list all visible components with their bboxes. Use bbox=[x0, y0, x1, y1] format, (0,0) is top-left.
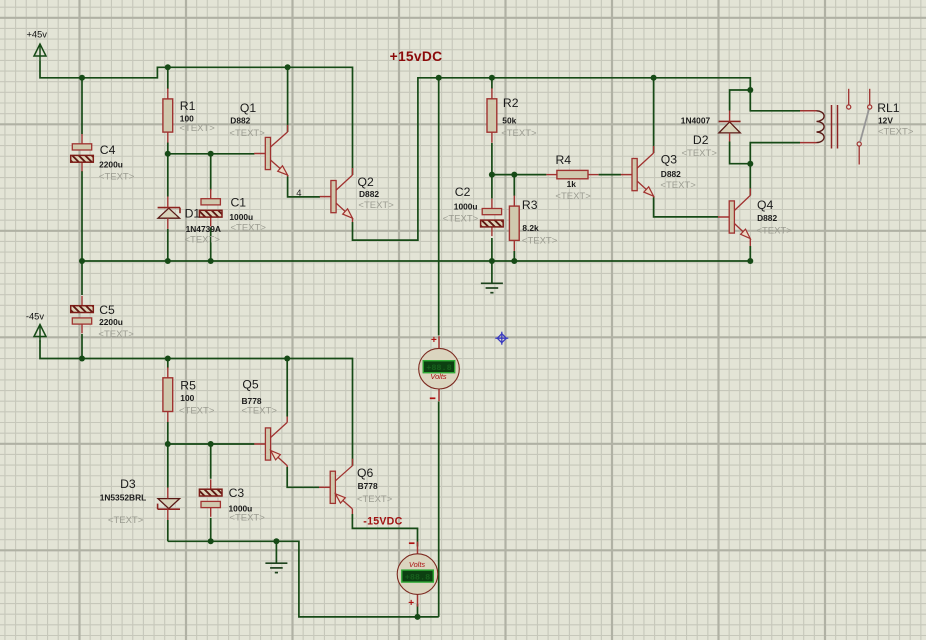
svg-text:<TEXT>: <TEXT> bbox=[185, 235, 221, 246]
svg-text:+88.8: +88.8 bbox=[405, 573, 431, 583]
svg-text:<TEXT>: <TEXT> bbox=[443, 213, 479, 224]
svg-text:C4: C4 bbox=[100, 143, 116, 157]
svg-text:1000u: 1000u bbox=[229, 212, 253, 222]
svg-text:R3: R3 bbox=[522, 198, 538, 212]
svg-text:B778: B778 bbox=[358, 481, 378, 491]
svg-text:C5: C5 bbox=[99, 303, 115, 317]
svg-text:<TEXT>: <TEXT> bbox=[98, 329, 134, 340]
svg-text:1000u: 1000u bbox=[454, 201, 478, 211]
svg-text:D2: D2 bbox=[693, 133, 709, 147]
svg-text:<TEXT>: <TEXT> bbox=[229, 513, 265, 524]
svg-text:<TEXT>: <TEXT> bbox=[108, 515, 144, 526]
svg-text:<TEXT>: <TEXT> bbox=[229, 128, 265, 139]
svg-text:+45v: +45v bbox=[27, 30, 48, 40]
svg-text:<TEXT>: <TEXT> bbox=[522, 236, 558, 247]
svg-text:<TEXT>: <TEXT> bbox=[179, 123, 215, 134]
svg-text:+: + bbox=[431, 335, 437, 346]
svg-text:<TEXT>: <TEXT> bbox=[555, 191, 591, 202]
svg-text:<TEXT>: <TEXT> bbox=[231, 223, 267, 234]
svg-text:<TEXT>: <TEXT> bbox=[99, 171, 135, 182]
svg-text:<TEXT>: <TEXT> bbox=[357, 494, 393, 505]
svg-text:Q5: Q5 bbox=[242, 378, 258, 392]
svg-text:<TEXT>: <TEXT> bbox=[660, 180, 696, 191]
svg-text:Volts: Volts bbox=[409, 560, 425, 569]
svg-text:50k: 50k bbox=[502, 116, 516, 126]
svg-text:Q1: Q1 bbox=[240, 101, 256, 115]
svg-text:Q3: Q3 bbox=[661, 153, 677, 167]
svg-text:+: + bbox=[408, 598, 414, 609]
svg-text:<TEXT>: <TEXT> bbox=[878, 126, 914, 137]
svg-text:Q4: Q4 bbox=[757, 198, 773, 212]
svg-text:-45v: -45v bbox=[26, 311, 44, 321]
svg-text:RL1: RL1 bbox=[877, 101, 900, 115]
svg-text:D882: D882 bbox=[359, 189, 379, 199]
svg-text:-15VDC: -15VDC bbox=[363, 515, 402, 527]
svg-text:D882: D882 bbox=[230, 115, 250, 125]
svg-text:Q2: Q2 bbox=[358, 175, 374, 189]
svg-text:D3: D3 bbox=[120, 477, 136, 491]
svg-text:C1: C1 bbox=[231, 195, 247, 209]
svg-text:<TEXT>: <TEXT> bbox=[358, 200, 394, 211]
svg-text:<TEXT>: <TEXT> bbox=[242, 405, 278, 416]
svg-text:100: 100 bbox=[180, 114, 194, 124]
svg-text:4: 4 bbox=[296, 188, 301, 199]
svg-text:+15vDC: +15vDC bbox=[390, 49, 443, 64]
svg-text:R5: R5 bbox=[180, 379, 196, 393]
svg-text:R2: R2 bbox=[503, 96, 519, 110]
svg-text:<TEXT>: <TEXT> bbox=[682, 148, 718, 159]
svg-text:D1: D1 bbox=[185, 206, 201, 220]
svg-text:R4: R4 bbox=[556, 153, 572, 167]
svg-text:2200u: 2200u bbox=[99, 159, 123, 169]
svg-text:100: 100 bbox=[180, 393, 194, 403]
svg-text:1k: 1k bbox=[567, 179, 577, 189]
svg-text:Q6: Q6 bbox=[357, 466, 373, 480]
svg-text:8.2k: 8.2k bbox=[522, 223, 539, 233]
svg-text:2200u: 2200u bbox=[99, 317, 123, 327]
svg-text:<TEXT>: <TEXT> bbox=[756, 225, 792, 236]
svg-text:12V: 12V bbox=[878, 116, 893, 126]
svg-text:<TEXT>: <TEXT> bbox=[501, 128, 537, 139]
svg-text:<TEXT>: <TEXT> bbox=[179, 405, 215, 416]
svg-text:1N5352BRL: 1N5352BRL bbox=[100, 493, 147, 503]
svg-text:1N4739A: 1N4739A bbox=[186, 224, 221, 234]
svg-text:Volts: Volts bbox=[430, 372, 446, 381]
svg-text:D882: D882 bbox=[661, 169, 681, 179]
svg-text:C3: C3 bbox=[229, 486, 245, 500]
svg-text:C2: C2 bbox=[455, 185, 471, 199]
svg-text:R1: R1 bbox=[180, 99, 196, 113]
svg-text:D882: D882 bbox=[757, 213, 777, 223]
svg-text:1N4007: 1N4007 bbox=[681, 115, 711, 125]
